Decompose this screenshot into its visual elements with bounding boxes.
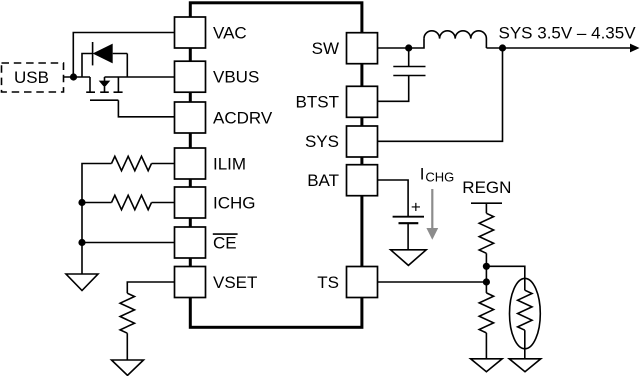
- svg-text:ILIM: ILIM: [213, 154, 246, 173]
- node TS junction: [483, 278, 490, 285]
- svg-text:CE: CE: [213, 233, 237, 252]
- wire thermistor to ground: [524, 330, 526, 359]
- thermistor RT1: [510, 278, 541, 348]
- wire VAC feed from USB node up and right to VAC pin: [73, 33, 175, 78]
- svg-text:USB: USB: [14, 68, 49, 87]
- svg-text:BTST: BTST: [296, 92, 339, 111]
- pin VSET: [175, 267, 206, 298]
- pin CE: [175, 227, 206, 258]
- wire bus to R2: [82, 202, 112, 204]
- wire bus to CE pin: [82, 242, 175, 244]
- wire TS pin to TS node: [378, 281, 487, 283]
- pin BTST: [347, 86, 378, 117]
- svg-text:TS: TS: [317, 273, 339, 292]
- battery BT1: [393, 198, 424, 224]
- transistor Q1 (reverse blocking MOSFET): [86, 77, 122, 100]
- svg-text:ICHG: ICHG: [213, 193, 256, 212]
- USB port (dashed box): [2, 63, 64, 92]
- ground (VSET): [112, 360, 144, 375]
- resistor R1 (ILIM): [112, 156, 152, 170]
- wire thermistor top: [486, 266, 524, 290]
- wire R4 to TS node and down: [485, 253, 487, 293]
- node SYS junction: [499, 44, 506, 51]
- wire C1 bottom to BTST pin: [378, 76, 409, 102]
- svg-text:VSET: VSET: [213, 273, 257, 292]
- wire diode branch left (anode drop to USB node wire): [82, 54, 93, 78]
- node CE bus junction: [78, 239, 85, 246]
- svg-text:+: +: [411, 198, 421, 217]
- ground (battery): [391, 250, 427, 266]
- capacitor C1 (bootstrap): [393, 67, 425, 76]
- ICHG current arrow: [426, 189, 438, 240]
- pin VBUS: [175, 61, 206, 92]
- pin ILIM: [175, 148, 206, 179]
- pin BAT: [347, 165, 378, 196]
- ground (thermistor): [509, 359, 541, 372]
- svg-text:SW: SW: [312, 39, 339, 58]
- wire diode cathode-side down to drain wire: [113, 54, 128, 78]
- wire VSET pin to R3: [127, 282, 175, 293]
- wire gate to ACDRV pin: [118, 100, 175, 117]
- svg-text:VAC: VAC: [213, 23, 247, 42]
- pin ACDRV: [175, 102, 206, 133]
- svg-text:REGN: REGN: [462, 178, 511, 197]
- Q1 source leg: [86, 77, 95, 92]
- wire ILIM branch and bus down to ground: [82, 164, 112, 275]
- Q1 drain leg: [114, 77, 123, 92]
- pin SYS: [347, 126, 378, 157]
- wire R1 to ILIM pin: [152, 163, 176, 165]
- pin SW: [347, 33, 378, 64]
- pin ICHG: [175, 187, 206, 218]
- diode D1 (body diode, pointing left): [93, 42, 113, 65]
- wire R3 to ground: [126, 333, 128, 360]
- wire R5 to ground: [485, 333, 487, 359]
- wire R2 to ICHG pin: [152, 202, 176, 204]
- wire SW pin to inductor: [378, 39, 425, 48]
- svg-text:SYS 3.5V – 4.35V: SYS 3.5V – 4.35V: [499, 23, 637, 42]
- pin VAC: [175, 17, 206, 48]
- resistor R5 (TS to GND): [479, 293, 493, 333]
- svg-text:ACDRV: ACDRV: [213, 108, 273, 127]
- svg-text:I: I: [420, 165, 425, 184]
- Q1 gate plate: [90, 99, 118, 101]
- SYS output arrowhead: [630, 44, 640, 53]
- op-amp U1 (charger IC body): [190, 3, 362, 328]
- svg-text:BAT: BAT: [307, 171, 339, 190]
- svg-text:CHG: CHG: [425, 170, 454, 185]
- node ICHG bus junction: [78, 199, 85, 206]
- wire C1 top: [408, 48, 410, 67]
- wire USB to MOSFET source: [64, 76, 91, 78]
- ground (TS divider): [471, 359, 503, 372]
- pin TS: [347, 267, 378, 298]
- wire battery to ground: [407, 223, 409, 250]
- resistor R3 (VSET): [120, 293, 134, 333]
- wire SYS pin up to SYS node: [378, 48, 503, 141]
- svg-text:VBUS: VBUS: [213, 68, 259, 87]
- inductor L1: [424, 31, 486, 48]
- node REGN terminal: [471, 203, 502, 213]
- wire BAT pin to battery: [378, 180, 409, 217]
- wire drain/bulk to VBUS pin: [105, 76, 176, 78]
- node USB junction: [70, 73, 77, 80]
- resistor R4 (REGN to TS): [479, 213, 493, 253]
- node thermistor junction: [483, 263, 490, 270]
- wire L1 to SYS output arrow: [486, 47, 631, 49]
- ground (ILIM/ICHG/CE bus): [66, 274, 98, 291]
- resistor R2 (ICHG): [112, 195, 152, 209]
- svg-text:SYS: SYS: [305, 132, 339, 151]
- Q1 bulk arrow: [104, 77, 106, 81]
- node SW/C1 junction: [405, 44, 412, 51]
